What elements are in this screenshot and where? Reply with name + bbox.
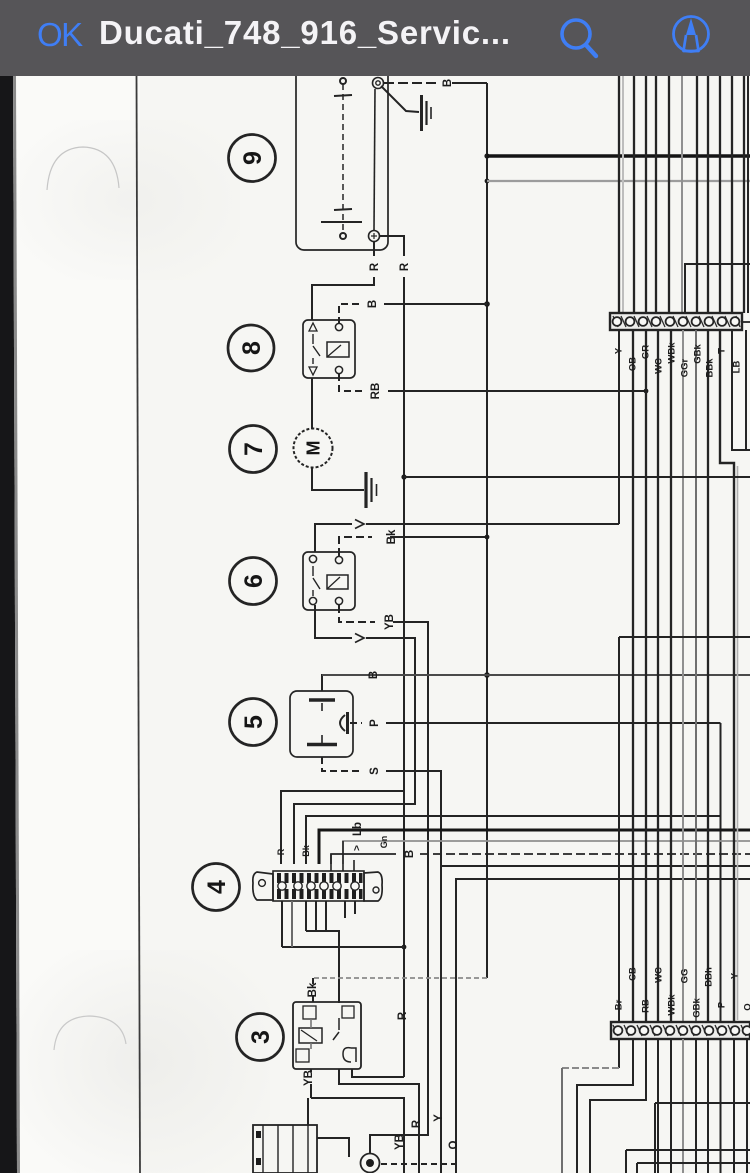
svg-text:YB: YB [384,614,396,630]
ground G2 (motor) [366,472,377,508]
wire Bk dashed to comp3 [313,977,487,979]
wire Y continuation down [440,866,442,1173]
wire heavy y156 [487,154,750,157]
chevron on wire y524 [355,520,364,529]
svg-text:Gn: Gn [379,836,389,849]
svg-text:R: R [369,262,381,271]
wire YB comp3 bottom left [310,1069,312,1098]
pin circles row [278,882,359,890]
wire dashed y943 remnant [291,901,293,947]
svg-text:B: B [442,79,454,87]
wire stubs below pins [345,901,355,918]
black page edge strip [0,76,17,1173]
wire bracket y931 [306,901,326,931]
wire Lb thick y830 [319,830,750,864]
wire fuse box top to YB [307,1098,309,1125]
wire comp4 pin3 P-net [306,816,721,864]
motor M circle [294,429,333,468]
wire B dashed y854 [331,854,396,864]
svg-text:R: R [397,1011,409,1020]
svg-text:RB: RB [370,383,382,400]
wire R to long bus [380,236,404,298]
wire LB to right edge [732,330,750,450]
svg-text:B: B [404,850,416,858]
svg-text:S: S [369,767,381,775]
svg-text:Bk: Bk [307,982,319,997]
svg-text:6: 6 [240,574,268,588]
wire Bk into comp3 top [312,978,314,1002]
node 3 badge [237,1014,284,1061]
svg-text:R: R [411,1119,423,1128]
svg-text:R: R [276,848,286,855]
junction dots on B bus [484,153,489,158]
motor wire to ground [312,468,364,490]
svg-text:RB: RB [641,999,652,1013]
wire Br corner [619,637,750,1022]
connector strip 1 [610,313,750,330]
top stubs into pins [331,841,354,871]
wire GGr grey full [682,330,684,1022]
wire S from comp5 bottom [322,757,362,771]
left ear [253,872,273,900]
svg-text:B: B [367,300,379,308]
wire T with jog [720,330,734,1022]
svg-text:B: B [368,671,380,679]
node 4 badge [193,864,240,911]
svg-text:3: 3 [247,1030,275,1044]
svg-text:WBk: WBk [667,994,678,1016]
horn [361,1154,380,1173]
svg-text:4: 4 [203,880,231,894]
wire B from relay 8 [339,304,360,324]
wire WC full [657,330,659,1022]
search icon [548,8,608,68]
svg-text:WC: WC [654,358,665,374]
wire Bk from relay6 top right [339,537,372,556]
svg-text:GG: GG [680,969,691,984]
svg-text:GBk: GBk [693,344,704,364]
wire right edge vertical top [747,76,749,313]
svg-text:8: 8 [238,341,266,355]
wire WBk full [670,330,672,1022]
wire from relay to motor [311,378,313,429]
wire GBk grey full [695,330,697,1022]
svg-text:GGr: GGr [680,358,691,377]
wire GR/RB full [645,330,647,1022]
svg-text:P: P [369,719,381,727]
ground G1 (key switch) [422,95,432,131]
wire chevron net from relay6 bottom left [315,605,352,638]
node 6 badge [230,558,277,605]
svg-text:Bk: Bk [386,529,398,544]
R bus vertical (x=404) [403,298,405,1077]
wire y477 cross [404,476,750,478]
wire y1150 bottom right [626,1150,750,1173]
wire comp3 right pin from R bus [352,1069,404,1077]
node 9 badge [229,135,276,182]
svg-text:>: > [352,845,363,851]
wire y1163 bottom right [637,1163,750,1173]
wire grey y181 [487,180,750,182]
wire fuse box to horn [317,1138,349,1157]
binder hole arc bottom [54,1016,126,1050]
binder hole arc top [47,147,119,190]
svg-text:O: O [743,1003,750,1010]
svg-text:GBk: GBk [692,998,703,1018]
wire OB/CB full [632,330,634,1022]
switch lever wire of component 9 [381,86,419,112]
wire from right edge into strip1 [685,264,750,313]
pin block [273,871,364,901]
svg-text:O: O [448,1140,460,1149]
svg-text:OB: OB [628,357,639,371]
wire dashes from horn [381,1163,456,1165]
wire grey y841 [343,841,750,864]
svg-text:9: 9 [239,151,267,165]
svg-text:WC: WC [654,967,665,983]
right ear [364,872,382,901]
wire B from switch to bus [384,82,440,84]
wire y879 corner and O wire down [456,879,750,1173]
wire comp3 centre pin down [339,1069,419,1173]
svg-text:5: 5 [240,715,268,729]
compass icon [662,4,722,64]
svg-text:Br: Br [614,999,625,1010]
wire y866 to right edge [441,865,750,867]
svg-text:GR: GR [641,345,652,359]
svg-text:BBh: BBh [704,967,715,987]
wire to relay6 top left [315,524,352,552]
wire y943 to R bus [282,946,404,948]
svg-text:7: 7 [240,442,268,456]
svg-text:BBk: BBk [705,358,716,378]
node 7 badge [230,426,277,473]
wire B from comp5 top [322,675,360,691]
wire Y to relay6 [618,330,620,524]
wires below strip 2 : staircase left [618,1039,620,1068]
svg-text:P: P [717,1001,728,1008]
grey shadow line [622,76,624,313]
chevron on wire y638 [355,634,364,643]
page border line [137,76,141,1173]
svg-text:T: T [717,348,728,354]
svg-text:R: R [399,262,411,271]
svg-text:Y: Y [614,347,625,354]
svg-text:YB: YB [394,1134,406,1150]
svg-text:Lb: Lb [352,822,364,836]
svg-text:M: M [304,441,324,456]
svg-text:Y: Y [433,1114,445,1122]
wire comp4 pin1 to R bus [281,791,404,864]
wire P vertical x722 [720,723,722,1022]
svg-text:LB: LB [732,361,743,374]
svg-text:Y: Y [730,972,741,979]
wire right edge below strip1 [745,330,747,450]
wire bundle verticals above strip 1 [618,76,620,313]
wire RB from relay 8 [339,374,362,391]
svg-text:CB: CB [628,967,639,981]
grey shadow line 737 [737,466,739,1020]
node 5 badge [230,699,277,746]
node 8 badge [228,325,274,371]
wire BBk full [707,330,709,1022]
svg-text:YB: YB [303,1070,315,1086]
wire y1103 bottom right [655,1103,750,1173]
connector strip 2 [611,1022,750,1039]
pin bars top row [277,873,363,899]
wire YB from relay6 bottom right [339,605,375,622]
svg-text:Bk: Bk [301,844,311,856]
svg-text:WBk: WBk [667,342,678,364]
grey dotted feeds [292,901,487,978]
wire bottom pins to y943 [282,901,292,947]
wire P from comp5 [350,722,362,724]
wire R down from switch bottom terminal [312,242,374,320]
